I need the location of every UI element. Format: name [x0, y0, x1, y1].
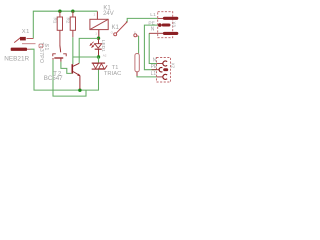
- connector X3 pin 2 PE: [158, 23, 169, 27]
- junction dot LED cathode / triac / base net: [97, 55, 100, 58]
- resistor R1: [57, 11, 62, 45]
- switch S1 pin stubs: [53, 58, 61, 62]
- relay coil K1 box: [90, 19, 108, 29]
- svg-text:S: S: [134, 30, 136, 34]
- relay contact common circle: [114, 33, 117, 36]
- svg-text:R1: R1: [53, 18, 58, 24]
- svg-text:L1: L1: [150, 12, 156, 18]
- svg-text:2: 2: [94, 13, 96, 17]
- switch S1 lever: [59, 46, 62, 53]
- svg-text:TRIAC: TRIAC: [104, 71, 121, 77]
- resistor R2: [70, 11, 75, 37]
- relay contact S circle: [134, 34, 137, 37]
- transistor T2 emitter with arrow: [73, 72, 80, 90]
- junction dot T2 emitter on bottom rail: [78, 89, 81, 92]
- svg-text:R2: R2: [66, 18, 71, 24]
- svg-text:A2: A2: [103, 54, 107, 58]
- connector X2 pin 2 PE: [152, 67, 167, 71]
- wire net PE from X3 pin 2 down to X2 pin 2: [144, 25, 158, 70]
- svg-text:BC547: BC547: [44, 75, 63, 82]
- connector X1 barrel circle: [39, 44, 43, 48]
- wire net pad to X2 pin 3: [137, 75, 157, 78]
- svg-text:O: O: [111, 31, 114, 35]
- svg-text:N: N: [151, 26, 155, 32]
- jumper pad JP: [135, 54, 139, 72]
- connector X2 pin 1 N: [157, 61, 167, 66]
- connector X3 pin 3 N: [149, 32, 177, 34]
- svg-text:TL37PO: TL37PO: [38, 42, 44, 63]
- switch S1 left contact: [53, 54, 56, 56]
- connector X1 pin 2 stub: [27, 48, 31, 50]
- junction dot at R2 top: [71, 10, 74, 13]
- svg-text:X3: X3: [172, 21, 177, 27]
- connector X2 pin 3 L1: [157, 74, 167, 79]
- connector X1 pin 1 slash: [14, 38, 20, 43]
- svg-text:NEB21R: NEB21R: [4, 56, 29, 63]
- junction dot node coil/R2/collector/LED: [97, 37, 100, 40]
- wire net junction2 down to triac: [98, 57, 100, 63]
- connector X3 pin 1 L1: [158, 17, 177, 19]
- svg-text:S1: S1: [43, 44, 49, 51]
- switch S1 base bar: [54, 57, 63, 59]
- LED LED1 emission arrows: [90, 42, 95, 48]
- wire net L1 from lever top to X3 pin 1: [127, 18, 158, 21]
- svg-text:24V: 24V: [103, 11, 114, 17]
- wire net junction2 left to T2 base (crosses collector): [73, 56, 99, 58]
- wire net switch right pin to T2 base: [61, 62, 72, 74]
- svg-text:T1: T1: [112, 65, 119, 71]
- connector X1 switch contact line: [22, 43, 36, 45]
- wire net N from X3 pin 3 down to X2 pin 1: [149, 33, 157, 63]
- relay contact lever: [116, 21, 127, 33]
- wire net GND : X1.2 down and bottom rail to triac: [31, 49, 99, 90]
- svg-text:L1: L1: [151, 71, 157, 77]
- transistor T2 base bar: [71, 64, 73, 73]
- wire net R2 bottom to T2 base bar: [72, 37, 74, 64]
- LED LED1: [95, 38, 102, 57]
- wire net from contact S down to jumper pad: [138, 36, 140, 54]
- triac T1: [92, 63, 108, 69]
- relay coil pin 2 bottom: [98, 30, 100, 37]
- svg-text:N: N: [153, 57, 157, 63]
- jumper pad bottom pin: [136, 72, 138, 76]
- wire net T2 collector to node: [79, 38, 98, 63]
- relay coil pin 1 top: [96, 11, 98, 19]
- wire net switch left pin down to bottom loop: [53, 60, 86, 96]
- relay contact S stub: [137, 35, 139, 37]
- connector X1 pin 1 pad bar: [20, 37, 26, 41]
- connector X1 pin 2 pad bar: [11, 48, 27, 51]
- svg-text:X2: X2: [170, 63, 175, 69]
- junction dot at R1 top: [58, 10, 61, 13]
- transistor T2 collector: [73, 63, 79, 66]
- svg-text:LED1: LED1: [100, 40, 106, 52]
- wire net V+ : X1.1 up and top rail to relay coil: [33, 11, 97, 38]
- switch S1 right contact: [63, 54, 66, 56]
- connector X2 outline box: [157, 58, 171, 83]
- connector X3 outline box: [158, 12, 173, 38]
- svg-text:1: 1: [95, 32, 97, 36]
- svg-text:X1: X1: [22, 29, 30, 35]
- connector X1 pin 1 stub: [27, 38, 34, 40]
